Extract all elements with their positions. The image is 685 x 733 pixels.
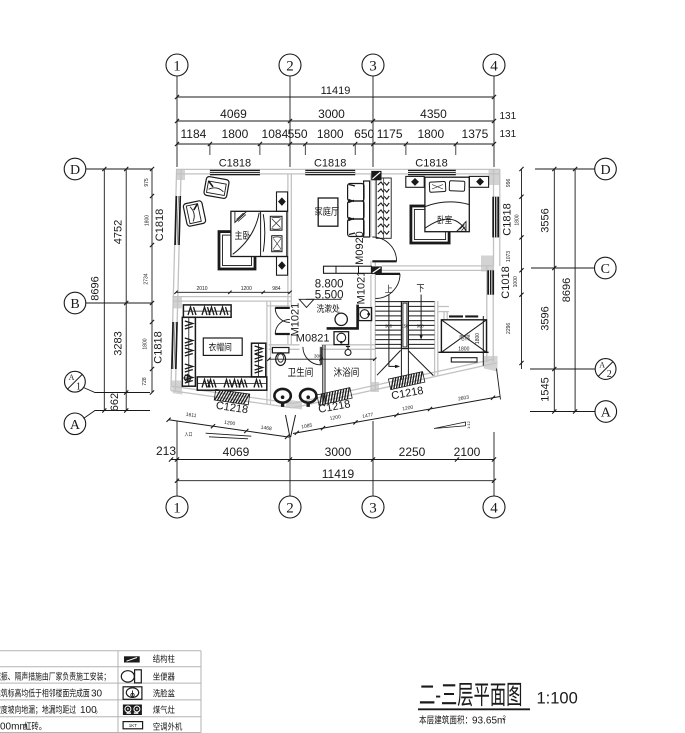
top dim row segments [177,143,494,145]
svg-text:4350: 4350 [420,107,447,121]
right dim chain windows [521,169,523,369]
svg-text:00mm: 00mm [0,722,28,733]
grid bubble 1 top [166,54,188,76]
svg-text:2100: 2100 [454,445,481,459]
svg-text:M1021: M1021 [355,271,367,305]
grid bubble B left [64,292,86,314]
entry steps left [206,433,252,436]
corner block left wall at B [173,296,182,308]
nightstand bedroom2 west [406,176,424,187]
legend note row 2 [0,672,106,682]
top dim extension lines [209,144,211,155]
svg-text:3: 3 [369,500,377,516]
svg-text:C1818: C1818 [415,158,447,170]
elevator shaft [441,320,486,353]
nightstand master north [277,192,288,212]
svg-text:1:12: 1:12 [466,420,471,429]
right dim line 3556 3596 1545 [553,169,555,412]
svg-text:900: 900 [385,324,393,329]
door M1021 (stair hall) [375,273,400,275]
pillow master 1 [270,216,282,230]
svg-text:C1018: C1018 [500,266,512,298]
svg-text:3596: 3596 [540,306,552,330]
svg-text:1545: 1545 [540,377,552,401]
bed master bedroom [231,211,287,256]
svg-text:11419: 11419 [321,85,351,97]
svg-text:1184: 1184 [180,127,206,141]
svg-text:131: 131 [500,111,517,122]
svg-text:1800: 1800 [475,333,481,344]
svg-text:1800: 1800 [222,127,249,141]
legend note row 3 [0,688,89,697]
stair stringer [401,302,408,349]
bathroom interior dim [269,358,375,360]
room label family room [315,207,339,216]
title area line [419,715,467,724]
armchair 1 master [204,176,230,199]
legend icon toilet [121,671,134,682]
svg-text:4: 4 [490,58,498,74]
legend label gas stove [153,705,175,713]
svg-text:C1818: C1818 [219,158,251,170]
door M0821 (bathroom) [319,347,321,365]
extension line right corner [497,369,501,400]
svg-text:728: 728 [142,377,148,386]
legend table grid [0,650,201,652]
corner block bottom-vertex [286,400,302,410]
svg-text:4069: 4069 [223,445,250,459]
svg-text:D: D [600,163,610,178]
svg-text:1800: 1800 [458,347,469,353]
room label closet [203,338,242,355]
interior wall master-bedroom south [172,296,291,298]
grid bubble 4 top [483,54,505,76]
svg-text:1KT: 1KT [129,723,138,728]
bottom slanted dim chain left [169,420,290,438]
svg-text:3: 3 [369,58,377,74]
floor drain shower [345,350,351,356]
svg-text:1800: 1800 [317,127,344,141]
svg-text:213: 213 [156,444,176,458]
svg-text:93.65m: 93.65m [472,716,505,727]
svg-text:100: 100 [80,705,97,716]
floor drain closet [184,375,190,381]
svg-text:C: C [601,262,610,277]
bottom slanted dim chain right [293,397,500,434]
svg-text:1200: 1200 [241,286,252,292]
stair treads [375,301,434,303]
right wall upper [493,169,495,266]
svg-text:1175: 1175 [377,127,403,141]
legend icon gas stove [123,705,142,716]
toilet bathroom [272,348,289,353]
corner block wall-C right junction [481,256,494,272]
title underline [418,708,530,710]
svg-text:2: 2 [607,369,612,380]
window C1218 bottom 3 [388,372,424,390]
svg-text:2: 2 [286,500,294,516]
svg-text:1800: 1800 [143,338,149,349]
svg-text:A: A [70,418,81,433]
svg-text:900: 900 [417,324,425,329]
svg-text:C1818: C1818 [154,209,166,241]
svg-text:650: 650 [354,127,374,141]
grid bubble D right [595,158,617,180]
interior wall master-bedroom east lower [287,334,289,345]
nightstand bedroom2 east [469,176,488,187]
interior wall family-room east [370,174,372,237]
svg-text:2010: 2010 [196,286,207,292]
stair up arrow [389,295,397,367]
wardrobe band closet west [182,317,195,386]
corner block bottom-left [171,381,183,395]
door M0920 (family room) [372,260,396,262]
svg-text:1: 1 [173,58,181,74]
svg-text:1:100: 1:100 [537,690,578,708]
grid bubble A right [595,401,617,423]
grid bubble 2 top [279,54,301,76]
corner block bottom-right [484,356,498,372]
wardrobe band closet north [183,305,231,317]
svg-text:2296: 2296 [506,323,512,334]
grid bubble 3 top [362,54,384,76]
svg-text:D: D [70,163,80,178]
svg-text:1800: 1800 [145,215,151,226]
column C2 mid wall [372,266,382,274]
svg-text:C1818: C1818 [153,331,165,363]
column C1 top wall [371,171,381,180]
svg-text:A: A [69,373,75,382]
legend label structural column [153,654,175,662]
svg-text:1800: 1800 [417,127,444,141]
svg-text:3000: 3000 [318,107,345,121]
svg-text:4: 4 [490,500,498,516]
svg-text:3000: 3000 [325,445,352,459]
left wall (slanted) [171,169,177,390]
railing low wall [324,266,372,273]
bottom dim row 11419 [177,480,494,482]
window C1818 left wall upper [174,196,181,245]
master bedroom interior dim [176,291,290,293]
window C1018 right wall [487,270,494,294]
svg-text:8696: 8696 [561,278,573,302]
pillow bedroom2 2 [449,181,465,192]
elevator right line [482,316,484,366]
legend label toilet [153,672,175,680]
window C1818 left wall lower [171,322,178,369]
appliance box wash area [359,308,372,321]
interior wall mid (below bedroom 2) [382,265,494,267]
top dim row 11419 [177,96,494,98]
svg-text:C1818: C1818 [502,203,514,235]
window C1818 top 2 [305,170,355,176]
cabinet hatch strip (wardrobe by bedroom2) [376,178,391,238]
window C1818 top 1 [210,170,260,176]
svg-text:11419: 11419 [322,467,355,481]
legend note row 4 [0,705,76,715]
interior wall stair west [370,275,372,391]
wash basin 1 [274,389,290,403]
svg-text:1073: 1073 [506,251,512,262]
svg-text:1000: 1000 [513,276,519,287]
room label master bedroom [235,231,250,240]
bed2 corner fold [457,222,466,232]
elevator lintel bars [449,315,463,317]
legend icon AC outdoor unit [123,722,143,729]
svg-text:975: 975 [144,178,150,187]
grid bubble A/2 right [595,359,616,380]
ramp wedge right [434,422,466,429]
door M1021 double (hall west) [275,307,290,309]
legend label AC outdoor unit [153,722,182,730]
svg-text:2734: 2734 [144,273,150,284]
svg-text:3283: 3283 [113,331,125,355]
right dim line 8696 [574,169,576,412]
interior wall bath north [269,344,300,346]
svg-text:996: 996 [506,179,512,188]
svg-text:1: 1 [76,382,81,393]
svg-text:M0821: M0821 [296,332,330,344]
window C1218 bottom 1 [214,389,250,405]
dim chain vertex V tick [286,415,296,438]
interior wall stair east [434,301,436,377]
elevator counterweight box [451,358,477,362]
grid bubble 1 bottom [176,421,178,496]
left dim line 4752 3283 662 [125,169,127,411]
grid bubble 2 bottom [289,438,291,496]
table family room [318,198,338,226]
room label bathroom [288,367,313,377]
svg-text:8696: 8696 [90,276,102,300]
svg-text:30: 30 [91,689,103,700]
room label wash area [317,304,340,313]
corner block top-right [489,169,500,185]
left dim chain windows [151,169,153,393]
room label bedroom 2 [438,215,452,224]
rug master bedroom [219,232,255,269]
top dim row 4069 3000 4350 [177,120,494,122]
counter thick line wash area [327,305,358,329]
legend label wash basin [153,689,175,697]
grid bubble 4 bottom [493,432,495,496]
washing machine shower nook [334,332,349,345]
grid bubble 3 bottom [372,421,374,496]
room label shower [334,367,359,377]
svg-text:1084: 1084 [262,127,289,141]
svg-text:4069: 4069 [220,107,247,121]
nightstand master south [277,257,288,276]
pillow bedroom2 1 [429,181,446,192]
bed corner fold [235,212,247,223]
rug bedroom 2 [411,206,449,243]
pillow master 2 [272,236,282,252]
svg-text:150: 150 [401,324,409,329]
wardrobe band closet south [197,377,266,390]
interior wall master-bedroom east [287,174,289,308]
svg-text:300: 300 [314,354,322,359]
left dim line 8696 [103,169,105,411]
window C1218 bottom 2 [317,388,352,406]
svg-text:1375: 1375 [462,127,489,141]
bottom wall right segment (slanted) [293,363,498,408]
right wall lower [486,266,488,362]
grid bubble A/1 left [65,371,86,392]
interior wall closet east [266,301,268,404]
sofa family room [364,181,370,237]
svg-text:2250: 2250 [399,445,426,459]
wash basin 2 [300,389,316,403]
svg-text:1800: 1800 [515,214,521,225]
wall stub above column [370,261,372,266]
svg-text:662: 662 [109,393,121,411]
svg-text:A: A [599,361,605,370]
svg-text:A: A [601,406,612,421]
stair down arrow [420,295,422,337]
title text [420,683,521,706]
hall corner wall line [267,305,290,307]
grid bubble D left [64,158,86,180]
corridor wall at elevator [438,306,449,308]
svg-text:2: 2 [286,58,294,74]
svg-text:B: B [70,297,79,312]
grid bubble C right [595,257,617,279]
corner block top-left [176,169,185,180]
svg-text:3556: 3556 [540,208,552,232]
stair landing diagonals [377,350,401,375]
svg-text:C1818: C1818 [314,158,346,170]
svg-text:1: 1 [173,500,181,516]
grid bubble A left [64,413,86,435]
svg-text:550: 550 [288,127,308,141]
bottom wall left segment (slanted) [171,391,293,408]
svg-text:131: 131 [500,129,517,140]
window C1818 top 3 [408,170,456,176]
basin wash area [335,313,347,325]
divider wall bathroom/shower [322,345,324,404]
corner block stair bottom-left [371,382,379,392]
top wall [176,168,500,170]
legend icon wash basin [123,687,142,700]
bed bedroom 2 [425,177,469,232]
window C1818 right wall [492,197,499,238]
armchair 2 master [183,200,206,226]
svg-text:984: 984 [272,286,281,292]
bottom dim row 213 4069 3000 2250 2100 [171,459,494,461]
wardrobe band closet east [252,343,266,377]
legend icon structural column [124,656,140,662]
svg-text:4752: 4752 [113,220,125,244]
